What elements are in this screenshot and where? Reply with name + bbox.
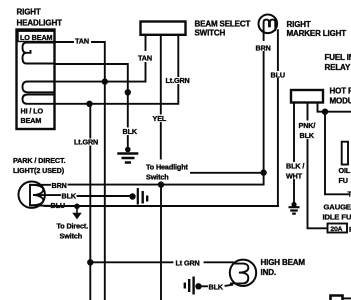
svg-text:BLK: BLK (209, 283, 224, 292)
svg-text:LIGHT(2 USED): LIGHT(2 USED) (13, 166, 65, 175)
wire Lt GRN vertical from junction down (89, 104, 91, 138)
wire YEL below label ending (160, 123, 162, 159)
svg-text:Switch: Switch (60, 232, 83, 241)
wire hi/lo top to beam select elbow (55, 63, 146, 82)
wire Lt GRN to high beam ind (90, 261, 172, 263)
wire park BLK segment (34, 194, 60, 196)
svg-text:RIGHT: RIGHT (287, 20, 311, 29)
svg-text:HEADLIGHT: HEADLIGHT (17, 19, 63, 28)
wire Lt GRN into lamp (205, 261, 234, 263)
svg-text:YEL: YEL (153, 114, 167, 123)
svg-text:LO BEAM: LO BEAM (20, 33, 53, 42)
svg-text:Switch: Switch (146, 173, 169, 182)
wire marker BRN down to junction (263, 52, 265, 173)
lo-beam filament (23, 43, 55, 64)
svg-text:HI / LO: HI / LO (21, 107, 44, 116)
fuse element rect (342, 142, 348, 165)
connector to headlight switch (138, 188, 147, 205)
node BRN junction (260, 169, 266, 175)
wire park BRN to bus (69, 184, 162, 186)
svg-text:BLK: BLK (62, 192, 77, 201)
svg-text:To Direct.: To Direct. (57, 222, 89, 231)
svg-text:BLK /: BLK / (286, 162, 304, 171)
wire BRN junction elbow to BRN bus (161, 173, 264, 185)
fuse 20A box (328, 224, 348, 233)
bottom right component box (331, 296, 343, 300)
svg-text:BLK: BLK (300, 131, 315, 140)
wire module right leg to node (318, 103, 326, 112)
LO BEAM label cell (18, 31, 55, 41)
right marker light circle (259, 14, 278, 33)
node mid junction on BLK wire (125, 89, 131, 95)
hi/lo filament 2 (23, 95, 55, 104)
wire hi/lo bottom to Lt GRN elbow up (55, 85, 179, 104)
beam select switch box (141, 22, 186, 35)
ground below BLK (117, 147, 138, 163)
park light filament (30, 185, 43, 206)
svg-text:HOT FU: HOT FU (330, 87, 351, 96)
svg-text:IDLE FUE: IDLE FUE (323, 213, 351, 222)
svg-text:MARKER LIGHT: MARKER LIGHT (287, 29, 347, 38)
node BRN bus junction (158, 181, 164, 187)
hi/lo filament 1 (23, 82, 55, 93)
wire BRN bus vertical to bottom (160, 185, 162, 300)
ground BLK/WHT (289, 202, 300, 214)
high beam ind circle (230, 260, 256, 286)
wire beam select center leg YEL (160, 35, 162, 114)
connector at high beam BLK (185, 277, 194, 295)
node TAN/LtGRN junction (102, 78, 108, 84)
svg-text:BLU: BLU (51, 201, 65, 210)
svg-text:BEAM SELECT: BEAM SELECT (195, 20, 251, 29)
arrow to direct switch (74, 206, 80, 218)
svg-text:RIGHT: RIGHT (17, 8, 41, 17)
wire module middle leg PNK/BLK (307, 103, 309, 120)
wire PNK/BLK down to 20A fuse (308, 140, 328, 228)
svg-text:Lt GRN: Lt GRN (176, 259, 200, 268)
svg-text:To: To (348, 190, 351, 199)
wire TAN to elbow, down to junction (92, 42, 105, 82)
wire to headlight switch stub (191, 172, 264, 174)
right headlight box (17, 30, 55, 130)
marker light filament m (264, 20, 276, 31)
wire park BLU segment (30, 204, 50, 207)
svg-text:BLK: BLK (123, 127, 138, 136)
wire marker BRN upper (263, 31, 265, 40)
node LtGRN junction (86, 101, 92, 107)
wire park BLU to marker elbow (65, 205, 278, 207)
wire long vertical from TAN junction to bottom (104, 82, 106, 300)
wire BLK segment (199, 285, 208, 287)
svg-text:BRN: BRN (52, 181, 67, 190)
svg-text:TAN: TAN (75, 37, 89, 46)
wire bottom right (343, 297, 351, 299)
svg-text:TAN: TAN (138, 54, 152, 63)
svg-text:SWITCH: SWITCH (195, 29, 226, 38)
wire park BRN segment (30, 184, 50, 186)
node connector dot (129, 193, 135, 199)
wire module left leg BLK/WHT (293, 103, 295, 162)
wire marker BLU down elbow to BLU bus (45, 79, 278, 206)
node To Direct junction (74, 204, 80, 210)
node module junction (322, 109, 328, 115)
node Lt GRN bottom junction (87, 259, 93, 265)
svg-text:20A: 20A (331, 226, 343, 233)
wire BLK below label (127, 136, 129, 148)
wire TAN segment from headlight (55, 41, 74, 43)
wire park BLK to connector (78, 195, 131, 197)
park / direct light circle (19, 182, 45, 208)
wire node down elbow to gauges (325, 112, 348, 195)
svg-text:Lt.GRN: Lt.GRN (166, 76, 190, 85)
wire BLK vertical down (127, 92, 129, 126)
svg-text:RELAY: RELAY (325, 63, 351, 72)
high beam filament 3-shape (231, 264, 248, 284)
wire BLK/WHT to ground (293, 180, 295, 205)
wire beam select right leg (177, 35, 179, 76)
svg-text:PARK / DIRECT.: PARK / DIRECT. (13, 156, 65, 165)
wire marker BLU upper (277, 30, 279, 70)
wire Lt GRN vertical to bottom (89, 147, 91, 300)
svg-text:OIL: OIL (339, 166, 351, 175)
svg-text:IND.: IND. (261, 268, 276, 277)
svg-text:Lt.GRN: Lt.GRN (74, 138, 98, 147)
hot fuel module box (291, 90, 323, 103)
svg-text:BEAM: BEAM (21, 116, 42, 125)
node high beam BLK dot (195, 283, 201, 289)
svg-text:PNK/: PNK/ (299, 121, 316, 130)
svg-text:GAUGES: GAUGES (324, 203, 351, 212)
svg-text:MODUL: MODUL (330, 97, 351, 106)
svg-text:FUEL IN: FUEL IN (325, 53, 351, 62)
svg-text:FU: FU (339, 176, 348, 185)
wire node to right edge (325, 111, 351, 113)
wire lo-beam bottom to BLK vertical (55, 64, 128, 92)
wire BLK into lamp (226, 285, 233, 286)
svg-text:To Headlight: To Headlight (146, 163, 188, 172)
svg-text:HIGH BEAM: HIGH BEAM (261, 258, 306, 267)
wire beam select middle-left leg (145, 35, 147, 50)
